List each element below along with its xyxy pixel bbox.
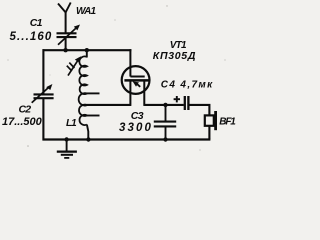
node: coil bottom junction [86, 137, 90, 141]
wire L1 tap stub upper [85, 92, 100, 94]
transistor VT1 gate bar [130, 76, 144, 78]
wire transistor right bottom lead [143, 80, 145, 106]
svg-text:C1: C1 [30, 17, 43, 29]
wire C4 to BF1 [190, 104, 210, 116]
wire source rail to C4 [144, 104, 184, 106]
wire BF1 to bottom bus [208, 126, 210, 140]
node: coil top junction [85, 48, 89, 52]
capacitor C3 3300 [154, 105, 176, 140]
wire coil bottom lead [87, 125, 88, 140]
transistor VT1 KP305D body [122, 66, 150, 94]
svg-text:C3: C3 [131, 110, 144, 122]
capacitor C1 (variable 5...160) [57, 25, 81, 51]
capacitor C2 (variable 17...500) [32, 84, 54, 103]
capacitor C4 polarity plus [174, 96, 180, 102]
node: ground junction [64, 137, 68, 141]
node: C3 bottom junction [163, 137, 167, 141]
trimmer arrow on L1 [67, 56, 81, 75]
wire left vertical (C2 to bottom wire) [42, 99, 44, 141]
svg-text:3300: 3300 [119, 122, 153, 134]
node: antenna / C1 junction [63, 48, 67, 52]
svg-text:L1: L1 [66, 118, 77, 129]
wire L1 tap to gate rail [85, 104, 131, 106]
ground [57, 140, 77, 158]
svg-text:5...160: 5...160 [10, 31, 53, 43]
wire top horizontal bus [43, 49, 132, 51]
transistor VT1 substrate arrow [133, 81, 141, 86]
transistor VT1 channel bar [124, 79, 149, 82]
wire bottom horizontal bus [43, 138, 211, 140]
wire drain lead from top bus [129, 49, 131, 76]
svg-text:C2: C2 [19, 103, 32, 115]
svg-text:BF1: BF1 [219, 116, 236, 127]
wire coil top stub [86, 50, 88, 57]
capacitor C4 electrolytic plates [185, 96, 189, 110]
antenna WA1 [58, 3, 71, 33]
wire transistor left bottom lead [129, 80, 131, 106]
svg-text:WA1: WA1 [76, 6, 97, 17]
wire L1 tap stub lower [85, 115, 100, 117]
svg-text:17...500: 17...500 [2, 116, 43, 128]
inductor L1 (tapped coil) [79, 56, 87, 125]
node: C3 top junction [163, 103, 167, 107]
headphone BF1 [205, 111, 217, 130]
wire left vertical (top wire to C2) [42, 49, 44, 93]
scan speckles [7, 5, 225, 150]
svg-text:C4 4,7мк: C4 4,7мк [161, 79, 214, 90]
svg-text:КП305Д: КП305Д [153, 50, 196, 62]
